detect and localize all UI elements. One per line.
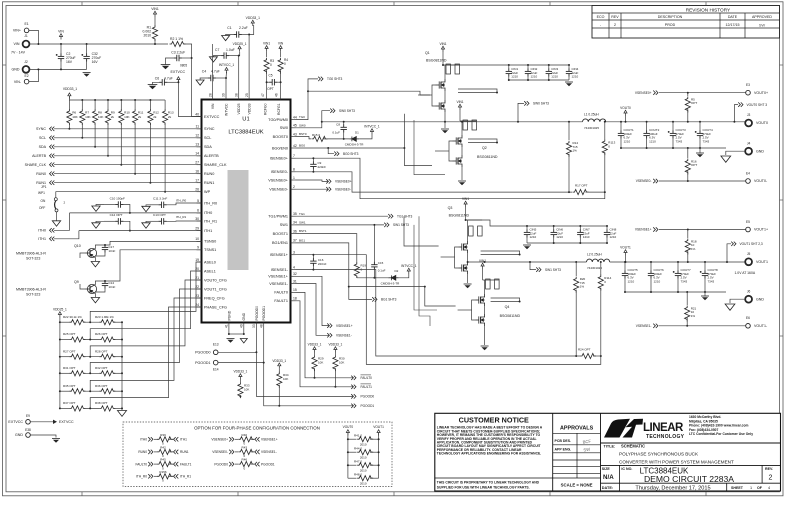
svg-text:2k: 2k — [168, 115, 172, 119]
junction R18 top — [687, 229, 689, 231]
svg-text:R46: R46 — [242, 458, 248, 462]
net label VOUT0 rail — [624, 110, 627, 116]
svg-text:0: 0 — [284, 62, 286, 66]
U1 right pin 45 SW0 stub — [291, 127, 296, 129]
svg-text:OFF: OFF — [39, 206, 45, 210]
svg-text:BST1: BST1 — [299, 229, 307, 233]
svg-text:42: 42 — [293, 144, 297, 148]
svg-text:C7: C7 — [215, 48, 219, 52]
svg-text:5: 5 — [197, 199, 199, 203]
wire grid row 2 mid — [83, 356, 99, 358]
U1 right pin 15 FAULT0 stub — [291, 291, 296, 293]
svg-text:Q3: Q3 — [448, 206, 453, 210]
svg-text:VDD33_1: VDD33_1 — [246, 16, 260, 20]
wire CIN8 top — [606, 226, 608, 230]
U1 left pin 17 RUN1 stub — [197, 182, 202, 184]
wire CIN8 bottom — [606, 238, 608, 244]
wire C2 bottom lead — [60, 61, 62, 69]
wire R114 bottom — [600, 288, 602, 356]
wire VSENSE0- row — [296, 188, 329, 190]
svg-text:LTC Confidential-For Customer: LTC Confidential-For Customer Use Only — [689, 432, 753, 436]
connector E9 — [26, 420, 31, 425]
wire CIN7 bottom — [579, 238, 581, 244]
junction grid right 2 — [121, 356, 123, 358]
junction CIN7 top — [579, 225, 581, 227]
U1 left pin 40 EXTVCC stub — [197, 116, 202, 118]
svg-text:FAULT1: FAULT1 — [274, 299, 288, 303]
svg-text:10nF: 10nF — [109, 249, 116, 253]
wire GND rail — [30, 68, 87, 70]
wire COUT2 gnd stub — [704, 292, 706, 296]
capacitor C13 — [159, 218, 167, 224]
svg-text:TG1: TG1 — [299, 212, 305, 216]
net arrow VSENSE1+ right — [653, 227, 658, 231]
svg-text:ITH1: ITH1 — [38, 237, 46, 241]
junction grid right 1 — [121, 339, 123, 341]
Q4 pad2 — [495, 279, 500, 289]
wire C13 left lead — [150, 220, 159, 222]
svg-text:JP1: JP1 — [41, 185, 47, 189]
border tick left 1 — [3, 199, 7, 201]
capacitor CIN4 — [566, 69, 572, 77]
svg-text:R12: R12 — [153, 111, 159, 115]
junction BG1 rail — [348, 286, 350, 288]
svg-text:PGOOD1: PGOOD1 — [262, 306, 266, 321]
svg-text:J3: J3 — [747, 113, 751, 117]
junction R6 to row — [68, 128, 70, 130]
svg-text:EXTVCC: EXTVCC — [171, 70, 186, 74]
svg-text:48: 48 — [259, 324, 263, 328]
JP1 pin1 circle — [54, 198, 57, 201]
svg-text:Q9: Q9 — [74, 280, 79, 284]
diode D2 — [389, 275, 399, 280]
U1 right pin 2 VSENSE0- stub — [291, 188, 296, 190]
wire C12 gnd elbow — [96, 221, 104, 223]
transistor Q10 — [86, 248, 97, 257]
wire TG0 row — [296, 91, 309, 119]
net arrow FAULT0 — [351, 376, 356, 380]
svg-text:R17 OPT: R17 OPT — [575, 184, 588, 188]
svg-text:SW0 SHT3: SW0 SHT3 — [339, 109, 355, 113]
wire ISENSE0+ row — [296, 158, 314, 162]
wire R19 bottom — [356, 276, 358, 278]
ground at J4 — [721, 156, 731, 162]
svg-text:VIN1: VIN1 — [462, 197, 469, 201]
junction CIN3 top — [548, 64, 550, 66]
wire COUT4 top — [699, 122, 701, 131]
svg-text:RUN1: RUN1 — [180, 450, 189, 454]
junction R114 top — [600, 261, 602, 263]
U1 left pin 9 TSNS1 stub — [197, 249, 202, 251]
capacitor C8 — [341, 124, 347, 132]
wire R29 bottom — [314, 368, 316, 378]
wire INTVCC pin riser — [225, 72, 228, 100]
svg-text:R23 1.96k 1%: R23 1.96k 1% — [95, 315, 114, 319]
wire ISENSE1+ long — [313, 255, 600, 365]
svg-text:2.2uF: 2.2uF — [239, 26, 248, 30]
wire grid row 1 left — [60, 339, 70, 341]
resistor R34 — [277, 372, 282, 388]
svg-text:FAULT0: FAULT0 — [274, 291, 288, 295]
U1 left pin 10 TSNS0 stub — [197, 240, 202, 242]
option stack wire left R41 — [348, 438, 357, 440]
wire CIN1 bottom — [508, 77, 510, 81]
svg-text:17: 17 — [195, 179, 199, 183]
FAULT0 overline — [361, 374, 372, 376]
wire CIN rail top — [445, 64, 569, 66]
connector J3 VOUT0 — [745, 120, 752, 127]
resistor R16 — [685, 159, 690, 175]
svg-text:R2 1 1%: R2 1 1% — [170, 37, 183, 41]
svg-text:TG0: TG0 — [299, 115, 305, 119]
customer notice divider — [552, 413, 554, 491]
svg-text:VIN1: VIN1 — [439, 42, 446, 46]
net label VIN R4 — [279, 46, 282, 52]
option VOUT1 arrow — [377, 430, 380, 436]
svg-text:VOUT1_CFG: VOUT1_CFG — [204, 287, 227, 291]
junction R12 to row — [149, 182, 151, 184]
wire R18 top — [687, 230, 689, 239]
wire COUT5 bottom — [624, 279, 626, 293]
wire R34 top — [278, 369, 280, 372]
svg-text:SHEET: SHEET — [731, 486, 744, 490]
wire C1 lead — [242, 34, 250, 36]
net label VDD33_1 top — [251, 20, 254, 26]
svg-text:VOUT1-: VOUT1- — [754, 324, 768, 328]
svg-text:FREQ_CFG: FREQ_CFG — [204, 296, 225, 300]
transistor Q1 fet A — [436, 79, 446, 91]
svg-text:PGOOD1: PGOOD1 — [361, 404, 375, 408]
ground at C13 — [142, 223, 150, 228]
wire pads top Q2 — [460, 120, 477, 122]
svg-text:SW0 SHT3: SW0 SHT3 — [533, 102, 549, 106]
junction SW1 fet — [467, 261, 469, 263]
svg-text:VOUT0_CFG: VOUT0_CFG — [204, 278, 227, 282]
wire SW0 arrow riser — [518, 103, 524, 121]
resistor R36 — [99, 389, 115, 394]
svg-text:VDD33_1: VDD33_1 — [63, 87, 77, 91]
svg-text:SDA: SDA — [204, 145, 212, 149]
border tick bottom 2 — [393, 492, 395, 496]
svg-text:C13 OPT: C13 OPT — [153, 213, 166, 217]
net arrow SYNC — [50, 127, 55, 131]
junction R17 right — [604, 191, 606, 193]
U1 left pin 22 VOUT1_CFG stub — [197, 288, 202, 290]
svg-text:VIN: VIN — [58, 30, 64, 34]
svg-text:32: 32 — [293, 272, 297, 276]
wire TG1 feed to Q3 — [404, 216, 439, 246]
junction Q1 bus — [496, 92, 498, 94]
capacitor C32 — [81, 54, 89, 62]
svg-text:TECHNOLOGY APPLICATIONS ENGINE: TECHNOLOGY APPLICATIONS ENGINEERING FOR … — [437, 452, 541, 456]
connector E4 VOUT0- — [746, 179, 751, 184]
wire CIN1 top — [508, 65, 510, 69]
resistor R48 — [357, 476, 373, 481]
net arrow VSENSE0+ mid — [326, 179, 331, 183]
revision table title row line — [592, 12, 780, 14]
wire C4 to gnd — [200, 78, 208, 80]
wire row SHARE_CLK — [54, 164, 202, 166]
resistor R113 — [602, 139, 607, 155]
wire D1 to INTVCC — [359, 135, 372, 139]
option PGOOD0 arrow 2 — [229, 462, 234, 466]
junction COUT bottom 700 — [699, 147, 701, 149]
svg-text:7343: 7343 — [708, 279, 715, 283]
capacitor C7 — [221, 52, 229, 58]
svg-text:49: 49 — [240, 324, 244, 328]
wire FAULT1 row — [296, 301, 354, 387]
svg-text:1210: 1210 — [654, 279, 661, 283]
svg-text:GND: GND — [756, 149, 764, 153]
svg-text:16V: 16V — [66, 60, 73, 64]
wire Q3 gates — [455, 247, 459, 268]
svg-text:VOUT1: VOUT1 — [620, 246, 631, 250]
wire R17 right — [586, 191, 605, 193]
resistor R28 — [99, 354, 115, 359]
svg-text:VSENSE1-: VSENSE1- — [261, 450, 277, 454]
wire R10 top lead — [120, 100, 122, 109]
svg-text:40: 40 — [195, 112, 199, 116]
wire Q10 to TSNS0 — [105, 241, 202, 245]
junction COUT bottom 621 — [620, 147, 622, 149]
junction SW0 riser — [517, 121, 519, 123]
wire stair phase1 a — [414, 225, 437, 310]
svg-text:1.0uF: 1.0uF — [226, 48, 235, 52]
U1 right pin 44 TG0/PWM0 stub — [291, 119, 296, 121]
svg-text:VSENSE0+: VSENSE0+ — [268, 178, 289, 182]
ground at C10 — [92, 206, 100, 211]
svg-text:SW: SW — [759, 23, 766, 28]
junction PGOOD1 drop — [263, 362, 265, 364]
wire PGOOD0 down — [256, 352, 353, 396]
svg-text:30: 30 — [195, 217, 199, 221]
wire COUT8 top — [704, 262, 706, 271]
resistor R7 — [80, 109, 85, 125]
wire grid row 0 left — [60, 321, 70, 323]
net arrow ITH0 — [50, 228, 55, 232]
border tick right 1 — [780, 199, 784, 201]
wire C11 gnd elbow — [146, 205, 150, 207]
wire PGND GND tie — [229, 333, 244, 335]
wire C1 to gnd — [226, 35, 234, 36]
svg-text:ITH0: ITH0 — [38, 229, 46, 233]
junction TG0 branch — [307, 90, 309, 92]
junction grid right 4 — [121, 390, 123, 392]
svg-text:VSENSE1-: VSENSE1- — [636, 324, 652, 328]
wire R13 bottom lead — [164, 123, 166, 192]
wire VSENSE1+ row — [296, 276, 330, 325]
capacitor CIN1 — [506, 69, 512, 77]
capacitor C3 — [174, 55, 182, 61]
connector E38 — [26, 433, 31, 438]
transistor Q2 fet A — [453, 135, 463, 147]
option wire R40 right 2 — [250, 438, 253, 440]
resistor R27 — [69, 354, 85, 359]
option stack junction R R44 — [378, 451, 380, 453]
rev col line — [761, 465, 763, 483]
junction ladder top R9 — [107, 99, 109, 101]
junction COUT bottom 673 — [672, 147, 674, 149]
wire R5 bottom — [687, 109, 689, 122]
title row divider — [601, 464, 781, 466]
svg-text:1210: 1210 — [511, 75, 518, 79]
svg-text:38: 38 — [234, 93, 238, 97]
wire C13 to pin ITH_R1 — [166, 220, 201, 222]
net label VOUT1 rail — [624, 250, 627, 256]
EXTVCC arrow — [177, 77, 180, 83]
junction C12 ITH1 — [129, 230, 131, 232]
junction R7 to row — [81, 137, 83, 139]
wire C7 lead — [229, 55, 239, 57]
net label VDD33_1 R30 — [334, 347, 337, 353]
svg-text:25: 25 — [245, 93, 249, 97]
junction SW1 q4 — [484, 261, 486, 263]
capacitor CIN5 — [524, 230, 530, 238]
svg-text:8: 8 — [293, 168, 295, 172]
U1 left pin 26 WP stub — [197, 191, 202, 193]
resistor R40 — [238, 437, 254, 442]
wire R113 bottom — [604, 152, 606, 192]
wire VOUT1 SHT riser — [727, 244, 731, 262]
junction COUT4 top — [699, 121, 701, 123]
resistor R47 — [357, 463, 373, 468]
capacitor COUT4 — [695, 131, 703, 139]
revision table box — [592, 6, 780, 39]
svg-text:E2: E2 — [25, 74, 29, 78]
capacitor C1 — [234, 31, 242, 37]
capacitor COUT2 — [643, 131, 649, 139]
ground at JP1 — [52, 221, 60, 226]
option stack wire right R44 — [370, 451, 379, 453]
connector J6 GND — [745, 296, 752, 303]
junction COUT6 top — [650, 261, 652, 263]
junction Q10 TSNS0 — [104, 244, 106, 246]
wire grid row 4 left — [60, 390, 70, 392]
svg-text:Q1: Q1 — [425, 51, 430, 55]
svg-text:BSG0811ND: BSG0811ND — [477, 155, 498, 159]
wire COUT1 top — [620, 122, 622, 131]
svg-text:POLYPHASE SYNCHRONOUS BUCK: POLYPHASE SYNCHRONOUS BUCK — [619, 451, 699, 456]
ground at Q10 — [91, 262, 99, 267]
svg-text:220nF: 220nF — [318, 262, 327, 266]
svg-text:4: 4 — [768, 486, 770, 490]
net arrow RUN1 — [50, 181, 55, 185]
svg-text:DATE:: DATE: — [602, 486, 613, 490]
junction COUT2 bottom 705 — [704, 291, 706, 293]
wire grid row 0 mid — [83, 321, 99, 323]
net arrow VSENSE1- right — [653, 324, 658, 328]
capacitor CIN3 — [546, 69, 552, 77]
junction R33 — [239, 395, 241, 397]
wire grid row 1 mid — [83, 339, 99, 341]
svg-text:10K: 10K — [339, 361, 344, 365]
junction grid left 0 — [59, 321, 61, 323]
wire VSENSE1- row — [296, 284, 330, 336]
resistor R9 — [105, 109, 110, 125]
svg-text:2k: 2k — [138, 115, 142, 119]
wire grid row 3 left — [60, 372, 70, 374]
junction CIN bottom 548.8 — [548, 79, 550, 81]
net arrow RUN0 — [50, 172, 55, 176]
svg-text:SOT-323: SOT-323 — [26, 256, 40, 260]
svg-text:ITH1: ITH1 — [204, 229, 212, 233]
svg-text:R42: R42 — [160, 446, 166, 450]
svg-text:BG1: BG1 — [299, 239, 305, 243]
svg-text:APP ENG.: APP ENG. — [555, 447, 572, 451]
svg-text:VOUT0 SHT 3: VOUT0 SHT 3 — [747, 103, 768, 107]
wire R4 to pin riser — [280, 70, 282, 100]
svg-text:7: 7 — [293, 154, 295, 158]
junction COUT2 bottom 625 — [624, 291, 626, 293]
ground at COUT2 bank — [701, 296, 709, 300]
wire VSENSE1- row right — [659, 325, 746, 327]
capacitor CIN6 — [551, 230, 557, 238]
option VSENSE1+ arrow 2 — [255, 437, 260, 441]
JP1 pin2 circle — [55, 209, 58, 212]
svg-text:31: 31 — [293, 279, 297, 283]
capacitor C9 — [310, 161, 316, 169]
wire VOUT1 label riser — [625, 256, 627, 263]
wire grid row 3 mid — [83, 372, 99, 374]
svg-text:1%: 1% — [691, 314, 696, 318]
svg-text:BG1/EN1: BG1/EN1 — [272, 241, 288, 245]
svg-text:26: 26 — [195, 188, 199, 192]
svg-text:3: 3 — [293, 251, 295, 255]
svg-text:4: 4 — [293, 265, 295, 269]
wire Q1 src — [444, 112, 446, 128]
net arrow ITH1 — [50, 237, 55, 241]
junction CIN5 top — [526, 225, 528, 227]
svg-text:J2: J2 — [24, 60, 28, 64]
revision table column line 0 — [608, 13, 610, 38]
wire pads top Q4 — [483, 279, 500, 281]
svg-text:ITH_R1: ITH_R1 — [180, 475, 191, 479]
wire R3 top lead — [266, 51, 268, 57]
capacitor COUT3 — [668, 131, 676, 139]
option wire R43 right 2 — [250, 451, 253, 453]
option wire R46 right 2 — [250, 463, 253, 465]
wire R11 bottom lead — [134, 123, 136, 174]
U1 left pin 23 FREQ_CFG stub — [197, 297, 202, 299]
svg-text:VDD33_1: VDD33_1 — [272, 359, 286, 363]
U1 left pin 21 VOUT0_CFG stub — [197, 279, 202, 281]
U1 left pin 13 SDA stub — [197, 146, 202, 148]
junction grid mid 3 — [89, 372, 91, 374]
svg-text:SW0: SW0 — [299, 123, 306, 127]
wire CIN rail bottom — [509, 79, 569, 81]
svg-text:ITH0: ITH0 — [140, 438, 147, 442]
wire VSENSE0+ row — [296, 180, 329, 181]
wire R2 to EXTVCC node — [184, 44, 202, 117]
svg-text:7V - 14V: 7V - 14V — [11, 51, 26, 55]
wire COUT1 bottom — [620, 139, 622, 149]
wire Q4 gate feed — [458, 309, 472, 311]
resistor R24 — [580, 353, 596, 358]
wire BST0 row — [296, 137, 312, 139]
svg-text:GND: GND — [15, 433, 23, 437]
svg-text:TITLE:: TITLE: — [604, 444, 616, 448]
option stack junction L R44 — [347, 451, 349, 453]
junction SW1 riser — [529, 261, 531, 263]
wire PGOOD1 down — [264, 363, 353, 406]
junction Q3 bus — [519, 254, 521, 256]
junction R21 top — [686, 291, 688, 293]
svg-text:ALERTB: ALERTB — [32, 154, 47, 158]
junction COUT2 bottom 678 — [677, 291, 679, 293]
svg-text:28: 28 — [208, 93, 212, 97]
ground at Q2 — [458, 181, 466, 185]
svg-text:Q2: Q2 — [482, 146, 487, 150]
